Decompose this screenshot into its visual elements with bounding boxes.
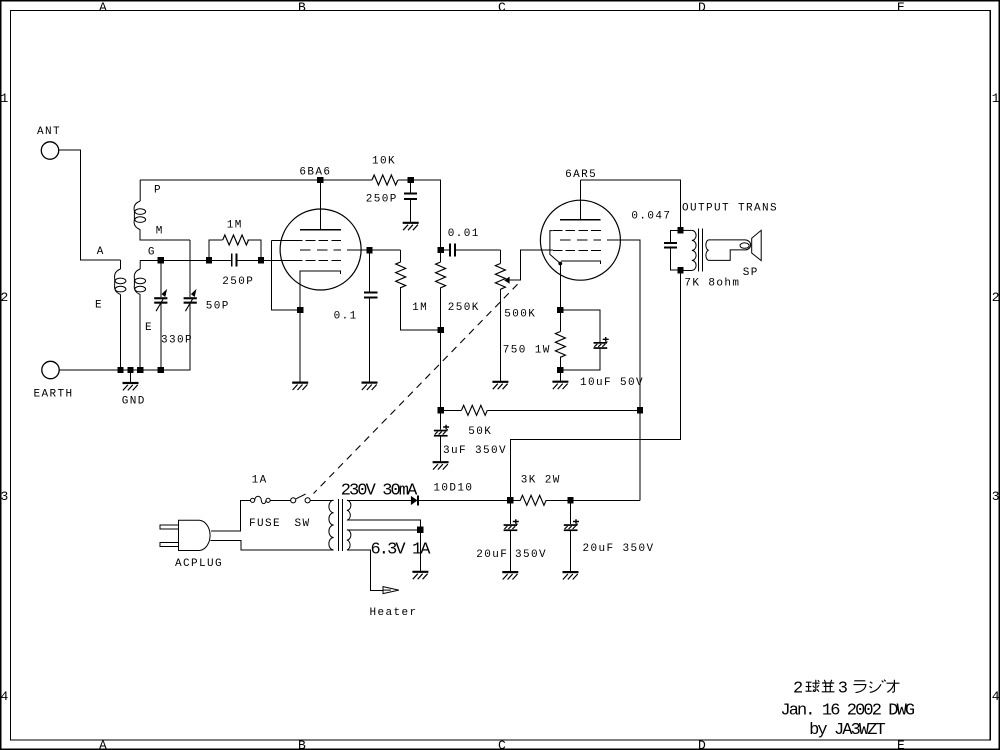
heater arrow bbox=[370, 587, 418, 619]
junction 750 bottom bbox=[557, 367, 563, 373]
diode 10D10 bbox=[351, 483, 510, 506]
tube V1 grid row 3 bbox=[293, 259, 341, 261]
junction grid right of 250P bbox=[258, 257, 264, 263]
junction rail G bbox=[137, 367, 143, 373]
junction 0.01 node bbox=[437, 247, 443, 253]
svg-text:0.047: 0.047 bbox=[631, 210, 671, 222]
transformer T2 OPT primary bbox=[681, 202, 779, 289]
svg-text:7K 8ohm: 7K 8ohm bbox=[684, 278, 740, 290]
wire 6.3V bottom to heater bbox=[347, 550, 383, 590]
svg-text:B: B bbox=[298, 0, 306, 15]
svg-text:4: 4 bbox=[992, 689, 1000, 704]
svg-text:M: M bbox=[156, 225, 164, 237]
junction B+ raw bbox=[507, 497, 513, 503]
svg-text:3K 2W: 3K 2W bbox=[521, 474, 561, 486]
svg-text:0.1: 0.1 bbox=[334, 311, 358, 323]
transformer T2 core bbox=[699, 229, 703, 272]
svg-text:SP: SP bbox=[743, 267, 759, 279]
svg-text:C: C bbox=[498, 0, 506, 15]
tube V2 grid row 2 bbox=[560, 239, 601, 241]
ground 20uF first bbox=[502, 572, 518, 579]
svg-text:G: G bbox=[148, 247, 156, 259]
junction grid 330P bbox=[158, 257, 164, 263]
ground rail bbox=[121, 369, 191, 371]
resistor 1M grid bbox=[209, 220, 261, 261]
wire plug lower lead bbox=[211, 540, 334, 550]
resistor 50K bbox=[441, 405, 640, 438]
tube V1 6BA6 envelope bbox=[280, 167, 361, 291]
transformer T3 core bbox=[339, 499, 343, 551]
svg-text:330P: 330P bbox=[161, 335, 193, 347]
title kanji nami bbox=[822, 680, 835, 692]
svg-text:C: C bbox=[498, 738, 506, 750]
ACPLUG bbox=[160, 520, 223, 570]
junction 50K right bbox=[637, 407, 643, 413]
title katakana o bbox=[887, 680, 900, 693]
ground 250P bypass bbox=[403, 223, 419, 230]
tube V1 grid row 2 bbox=[300, 249, 341, 251]
svg-text:250K: 250K bbox=[448, 302, 480, 314]
junction 50K left bbox=[437, 407, 443, 413]
svg-text:3: 3 bbox=[838, 679, 848, 698]
wire EARTH to ground rail bbox=[59, 369, 120, 371]
svg-text:50K: 50K bbox=[468, 426, 492, 438]
junction dot V2 cathode bbox=[558, 262, 562, 266]
title katakana ra bbox=[854, 681, 866, 693]
svg-text:2: 2 bbox=[992, 290, 1000, 305]
wire 6.3V top lead bbox=[347, 529, 421, 531]
tube V1 suppressor tie wire bbox=[271, 240, 300, 310]
tube V2 grid row 1 bbox=[553, 230, 601, 232]
svg-text:0.01: 0.01 bbox=[448, 228, 480, 240]
resistor 1M screen bbox=[396, 250, 441, 330]
svg-text:D: D bbox=[698, 0, 706, 15]
junction V2 cathode node bbox=[557, 307, 563, 313]
svg-text:250P: 250P bbox=[366, 194, 398, 206]
wire V2 cathode down bbox=[559, 264, 561, 311]
svg-text:D: D bbox=[698, 738, 706, 750]
ground V1 cathode bbox=[292, 383, 308, 390]
tube V2 plate bbox=[560, 180, 601, 220]
svg-text:FUSE: FUSE bbox=[249, 518, 281, 530]
svg-text:6AR5: 6AR5 bbox=[565, 169, 597, 181]
switch SW bbox=[291, 494, 311, 530]
svg-text:3: 3 bbox=[1, 489, 9, 504]
ground 750 bbox=[552, 382, 568, 389]
capacitor 0.047 bbox=[631, 210, 680, 270]
ground 20uF second bbox=[563, 572, 579, 579]
title katakana ji bbox=[869, 680, 885, 693]
wire center tap to ground bbox=[419, 530, 421, 572]
svg-text:GND: GND bbox=[122, 395, 146, 407]
wire switch to PT primary bbox=[310, 499, 333, 501]
fuse 1A bbox=[249, 474, 281, 530]
svg-text:10D10: 10D10 bbox=[433, 483, 473, 495]
wire V2 screen drop bbox=[607, 240, 640, 500]
tube V2 grid row 3 bbox=[553, 249, 601, 251]
junction B+ filtered bbox=[567, 497, 573, 503]
EARTH terminal bbox=[34, 361, 74, 400]
ground 500K bbox=[492, 382, 508, 389]
title kanji kyuu bbox=[806, 680, 820, 692]
svg-text:1A: 1A bbox=[252, 474, 268, 486]
svg-text:10uF 50V: 10uF 50V bbox=[580, 377, 644, 389]
tube V1 cathode bbox=[300, 271, 341, 310]
svg-text:3: 3 bbox=[992, 489, 1000, 504]
svg-text:OUTPUT TRANS: OUTPUT TRANS bbox=[682, 202, 778, 214]
wire V1 plate rail bbox=[140, 179, 372, 181]
wire V1 cathode to ground bbox=[299, 310, 301, 382]
ANT terminal bbox=[37, 126, 61, 159]
capacitor 250P screen bypass bbox=[366, 180, 417, 223]
svg-text:10K: 10K bbox=[372, 156, 396, 168]
svg-text:1: 1 bbox=[992, 91, 1000, 106]
wire plug upper lead bbox=[211, 500, 251, 531]
ground 3uF bbox=[433, 462, 449, 469]
junction grid left of 250P bbox=[206, 257, 212, 263]
junction OPT top bbox=[677, 227, 683, 233]
svg-text:P: P bbox=[154, 184, 162, 196]
coil T1 winding A bbox=[95, 246, 126, 370]
svg-text:A: A bbox=[97, 246, 105, 258]
svg-text:50P: 50P bbox=[206, 300, 230, 312]
capacitor 250P grid bbox=[222, 253, 254, 288]
junction V1 cathode bbox=[297, 307, 303, 313]
capacitor 3uF 350V bbox=[434, 410, 507, 462]
capacitor 20uF 350V second bbox=[564, 500, 655, 572]
capacitor 0.01 coupling bbox=[441, 228, 501, 257]
svg-text:1M: 1M bbox=[412, 302, 428, 314]
svg-text:E: E bbox=[145, 322, 153, 334]
wire fuse to switch bbox=[270, 499, 290, 501]
resistor 10K bbox=[372, 156, 411, 186]
svg-text:20uF 350V: 20uF 350V bbox=[583, 543, 655, 555]
junction rail A bbox=[117, 367, 123, 373]
svg-text:4: 4 bbox=[1, 689, 9, 704]
wire ANT to coil A bbox=[59, 150, 121, 260]
svg-text:6.3V 1A: 6.3V 1A bbox=[371, 540, 432, 559]
wire 10K junction to 0.01 node bbox=[411, 180, 441, 250]
tube V2 beam plate tie bbox=[550, 231, 560, 264]
svg-text:1M: 1M bbox=[227, 220, 243, 232]
svg-text:E: E bbox=[897, 738, 905, 750]
tube V2 cathode bbox=[561, 261, 600, 264]
potentiometer 500K bbox=[495, 250, 536, 382]
junction OPT bottom bbox=[677, 267, 683, 273]
svg-text:EARTH: EARTH bbox=[34, 389, 74, 401]
junction 10K output bbox=[408, 177, 414, 183]
ground GND bbox=[122, 370, 146, 407]
ground 0.1 bbox=[362, 383, 378, 390]
junction rail 330P bbox=[158, 367, 164, 373]
tube V1 plate bbox=[300, 180, 341, 230]
capacitor 20uF 350V first bbox=[476, 500, 547, 572]
svg-text:E: E bbox=[897, 0, 905, 15]
ground PT bbox=[412, 572, 428, 579]
wire 250K bottom to 50K bbox=[440, 330, 442, 410]
svg-text:ACPLUG: ACPLUG bbox=[175, 558, 223, 570]
svg-text:20uF: 20uF bbox=[476, 549, 508, 561]
transformer T3 HV secondary 230V bbox=[341, 482, 418, 521]
svg-text:230V 30mA: 230V 30mA bbox=[341, 482, 418, 501]
capacitor 0.1 bbox=[334, 250, 378, 382]
svg-text:A: A bbox=[99, 0, 107, 15]
svg-text:A: A bbox=[99, 738, 107, 750]
svg-text:by JA3WZT: by JA3WZT bbox=[809, 721, 885, 740]
svg-text:2: 2 bbox=[1, 290, 9, 305]
wire 3K to screen riser bbox=[571, 499, 641, 501]
svg-text:350V: 350V bbox=[515, 549, 547, 561]
variable capacitor 50P bbox=[184, 240, 230, 370]
junction rail GND bbox=[127, 367, 133, 373]
resistor 250K bbox=[436, 250, 480, 330]
wire OPT bottom to B+ bbox=[510, 270, 680, 500]
tube V2 6AR5 envelope bbox=[540, 169, 620, 280]
transformer T2 secondary and speaker coil bbox=[706, 240, 751, 261]
speaker SP cone bbox=[743, 230, 762, 279]
svg-text:1: 1 bbox=[1, 91, 9, 106]
wire HV lead bottom bbox=[347, 520, 421, 530]
transformer T3 heater winding 6.3V bbox=[347, 530, 431, 560]
svg-text:E: E bbox=[95, 299, 103, 311]
svg-text:6BA6: 6BA6 bbox=[299, 167, 331, 179]
variable capacitor 330P bbox=[154, 260, 193, 370]
svg-text:Heater: Heater bbox=[370, 607, 418, 619]
svg-text:750 1W: 750 1W bbox=[503, 345, 551, 357]
dashed gang line 500K to SW bbox=[314, 284, 518, 493]
svg-text:B: B bbox=[298, 738, 306, 750]
capacitor 10uF 50V bbox=[560, 310, 644, 389]
svg-text:2: 2 bbox=[793, 679, 802, 698]
wire V2 plate to OPT bbox=[580, 180, 680, 230]
resistor 3K 2W bbox=[510, 474, 570, 505]
transformer T3 PT primary bbox=[329, 500, 334, 550]
wire HV lead top bbox=[347, 499, 351, 501]
svg-text:500K: 500K bbox=[504, 308, 536, 320]
coil T1 winding G-E bbox=[134, 247, 156, 370]
junction screen node bbox=[366, 247, 372, 253]
svg-text:Jan. 16 2002 DWG: Jan. 16 2002 DWG bbox=[780, 702, 915, 721]
junction 250K bottom bbox=[437, 327, 443, 333]
svg-text:250P: 250P bbox=[222, 276, 254, 288]
junction PT center tap bbox=[417, 527, 423, 533]
tube V1 grid row 1 bbox=[271, 239, 293, 241]
junction V1 plate bbox=[317, 177, 323, 183]
coil T1 winding P-M bbox=[134, 180, 190, 240]
svg-text:ANT: ANT bbox=[37, 126, 61, 138]
wiper 500K arrow bbox=[504, 250, 553, 284]
svg-text:3uF 350V: 3uF 350V bbox=[443, 445, 507, 457]
resistor 750 1W bbox=[503, 310, 566, 381]
wire V1 screen row to node bbox=[347, 249, 401, 251]
svg-text:SW: SW bbox=[295, 518, 311, 530]
wire grid line bbox=[140, 259, 293, 261]
